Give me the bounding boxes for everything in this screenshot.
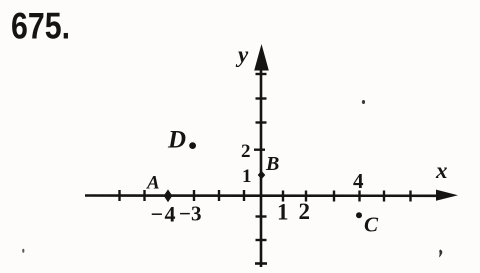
y tick -3: [255, 262, 267, 265]
x tick 2: [305, 191, 307, 202]
svg-text:x: x: [435, 158, 448, 183]
point A (diamond at -4,0): [164, 189, 173, 202]
svg-text:2: 2: [299, 199, 311, 224]
y tick 5: [256, 73, 267, 75]
svg-text:1: 1: [277, 200, 289, 225]
x tick -5: [118, 190, 120, 201]
x tick 3: [333, 191, 335, 202]
faint scan speck bottom left: [22, 249, 24, 253]
x tick -2: [218, 190, 220, 201]
y-axis: [260, 62, 263, 267]
svg-text:1: 1: [242, 166, 252, 187]
x tick -3: [193, 190, 195, 201]
x tick 1: [282, 191, 284, 202]
y tick 2: [254, 148, 265, 150]
y tick 4: [256, 97, 267, 99]
point C (dot): [356, 212, 362, 218]
svg-text:675.: 675.: [11, 6, 70, 47]
y tick -1: [256, 215, 267, 217]
x tick 6: [409, 191, 411, 202]
point D (dot): [189, 142, 196, 149]
svg-text:B: B: [265, 153, 279, 175]
y tick 3: [256, 121, 267, 123]
svg-text:−3: −3: [179, 202, 201, 226]
x tick -1: [243, 190, 245, 201]
point B (diamond at 0,1): [258, 171, 266, 179]
svg-text:2: 2: [241, 141, 251, 162]
y-axis arrowhead: [254, 44, 269, 71]
svg-text:−4: −4: [151, 202, 178, 227]
x tick 5: [383, 191, 385, 202]
x tick 4: [358, 191, 360, 202]
x-axis arrowhead: [436, 190, 458, 201]
svg-text:C: C: [364, 213, 379, 237]
svg-text:y: y: [235, 42, 249, 67]
y tick -2: [256, 239, 267, 241]
x tick -4: [143, 190, 145, 201]
svg-text:4: 4: [353, 169, 364, 193]
x-axis: [85, 194, 440, 197]
ink speck top right: [362, 100, 365, 104]
svg-text:D: D: [167, 127, 186, 154]
svg-text:A: A: [146, 173, 160, 194]
ink speck comma bottom right: [439, 250, 442, 258]
